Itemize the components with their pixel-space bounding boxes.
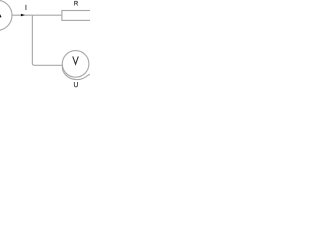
- wire swoop (voltmeter lead under circle to right edge): [62, 65, 90, 79]
- current arrow: [21, 14, 25, 17]
- label I: [24, 5, 27, 10]
- wire top (ammeter to resistor R): [12, 14, 62, 16]
- label R bowl: [75, 1, 78, 3]
- label U: [74, 82, 77, 87]
- ammeter A1 (circle cut at left edge): [0, 0, 12, 30]
- wire bottom (node to voltmeter): [34, 64, 63, 66]
- resistor R (box cut at right edge): [62, 11, 93, 21]
- voltmeter letter V: [73, 56, 79, 64]
- label R leg: [76, 3, 77, 5]
- label R stem: [74, 1, 76, 6]
- voltmeter U1 circle: [62, 51, 89, 78]
- wire vertical from node: [32, 15, 34, 65]
- ammeter letter A (clipped right tip): [0, 14, 1, 17]
